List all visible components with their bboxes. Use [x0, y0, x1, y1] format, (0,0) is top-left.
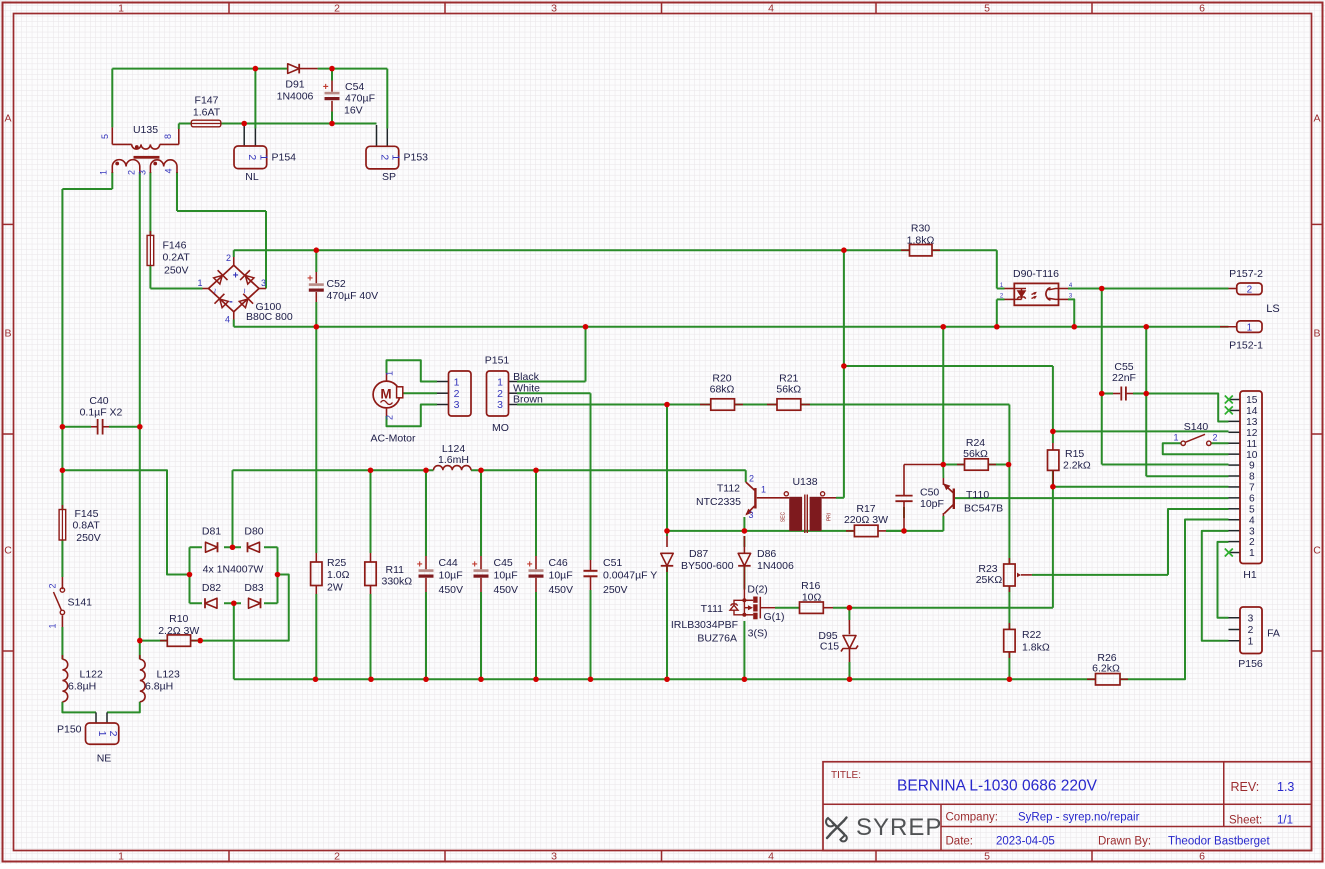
svg-text:BERNINA L-1030 0686 220V: BERNINA L-1030 0686 220V: [897, 778, 1098, 795]
svg-text:+: +: [323, 82, 329, 93]
svg-text:3: 3: [551, 851, 557, 863]
svg-text:D83: D83: [244, 582, 263, 594]
svg-text:+: +: [472, 559, 478, 570]
svg-text:REV:: REV:: [1231, 780, 1260, 794]
svg-text:F147: F147: [195, 95, 219, 107]
svg-text:C15: C15: [820, 641, 839, 653]
svg-text:250V: 250V: [164, 265, 189, 277]
svg-text:5: 5: [1249, 504, 1255, 515]
svg-text:1.8kΩ: 1.8kΩ: [907, 235, 935, 247]
svg-text:C46: C46: [549, 557, 568, 569]
svg-text:16V: 16V: [344, 105, 363, 117]
svg-text:1: 1: [1247, 322, 1253, 333]
svg-text:1: 1: [48, 623, 58, 628]
svg-text:1.0Ω: 1.0Ω: [327, 569, 350, 581]
svg-text:NE: NE: [97, 753, 112, 765]
svg-text:P153: P153: [404, 152, 429, 164]
svg-text:F145: F145: [75, 508, 99, 520]
svg-text:3: 3: [137, 170, 147, 175]
svg-text:220Ω 3W: 220Ω 3W: [844, 514, 888, 526]
svg-text:330kΩ: 330kΩ: [382, 576, 413, 588]
svg-text:S141: S141: [68, 597, 93, 609]
svg-text:U135: U135: [133, 124, 158, 136]
svg-text:G(1): G(1): [764, 611, 785, 623]
svg-text:R24: R24: [966, 437, 985, 449]
svg-text:2: 2: [454, 388, 460, 400]
svg-text:2: 2: [126, 170, 136, 175]
svg-text:5: 5: [984, 851, 990, 863]
svg-text:D(2): D(2): [747, 583, 767, 595]
svg-text:8: 8: [1249, 472, 1255, 483]
svg-text:4: 4: [768, 851, 774, 863]
svg-text:1.6mH: 1.6mH: [438, 454, 469, 466]
svg-text:R20: R20: [712, 373, 731, 385]
svg-text:2: 2: [385, 415, 395, 420]
svg-text:SYREP: SYREP: [856, 814, 942, 841]
svg-text:P157-2: P157-2: [1229, 268, 1263, 280]
svg-text:R25: R25: [327, 557, 346, 569]
svg-text:2: 2: [1212, 432, 1217, 442]
svg-text:C: C: [1313, 545, 1321, 557]
svg-text:M: M: [380, 387, 391, 402]
svg-text:470µF 40V: 470µF 40V: [327, 290, 379, 302]
svg-text:2: 2: [107, 731, 119, 737]
svg-text:A: A: [1313, 113, 1320, 125]
svg-text:3(S): 3(S): [748, 628, 768, 640]
svg-text:+: +: [417, 559, 423, 570]
svg-text:NTC2335: NTC2335: [696, 496, 741, 508]
svg-text:D80: D80: [244, 526, 263, 538]
svg-text:4: 4: [768, 3, 774, 15]
svg-text:0.2AT: 0.2AT: [163, 252, 191, 264]
svg-text:2: 2: [226, 253, 231, 263]
svg-text:P156: P156: [1238, 658, 1263, 670]
svg-text:Black: Black: [513, 371, 539, 383]
svg-text:1.6AT: 1.6AT: [193, 107, 221, 119]
svg-text:3: 3: [551, 3, 557, 15]
svg-text:-: -: [229, 296, 233, 308]
svg-text:3: 3: [748, 510, 753, 520]
svg-text:3: 3: [261, 278, 266, 288]
svg-text:P152-1: P152-1: [1229, 340, 1263, 352]
svg-text:6.8µH: 6.8µH: [145, 681, 173, 693]
svg-text:D86: D86: [757, 548, 776, 560]
svg-text:6: 6: [1249, 493, 1255, 504]
svg-text:1: 1: [99, 170, 109, 175]
svg-text:D82: D82: [202, 582, 221, 594]
svg-text:Company:: Company:: [946, 812, 998, 824]
svg-text:IRLB3034PBF: IRLB3034PBF: [671, 619, 738, 631]
svg-text:14: 14: [1246, 406, 1258, 417]
svg-text:1: 1: [258, 154, 270, 160]
svg-text:22nF: 22nF: [1112, 372, 1136, 384]
svg-text:10µF: 10µF: [549, 570, 573, 582]
svg-text:C: C: [4, 545, 12, 557]
svg-text:R11: R11: [386, 564, 405, 576]
svg-text:1: 1: [1249, 548, 1255, 559]
svg-text:250V: 250V: [76, 532, 101, 544]
svg-text:470µF: 470µF: [345, 93, 375, 105]
svg-text:7: 7: [1249, 483, 1255, 494]
svg-text:2W: 2W: [327, 582, 343, 594]
svg-text:1.8kΩ: 1.8kΩ: [1022, 642, 1050, 654]
svg-text:D90-T116: D90-T116: [1013, 268, 1059, 280]
svg-text:S140: S140: [1184, 421, 1209, 433]
svg-text:C40: C40: [89, 395, 108, 407]
svg-text:1: 1: [118, 851, 124, 863]
svg-text:2.2kΩ: 2.2kΩ: [1063, 460, 1091, 472]
svg-text:L122: L122: [80, 669, 104, 681]
svg-text:250V: 250V: [603, 584, 628, 596]
svg-text:10Ω: 10Ω: [802, 592, 822, 604]
svg-text:LS: LS: [1266, 303, 1279, 315]
svg-text:C44: C44: [439, 557, 458, 569]
svg-text:4: 4: [225, 315, 230, 325]
svg-text:FA: FA: [1267, 628, 1280, 640]
svg-text:3: 3: [497, 399, 503, 411]
svg-text:T111: T111: [701, 603, 724, 615]
svg-text:3: 3: [454, 399, 460, 411]
svg-text:SyRep - syrep.no/repair: SyRep - syrep.no/repair: [1018, 812, 1140, 824]
svg-text:1: 1: [454, 376, 460, 388]
svg-text:C51: C51: [603, 557, 622, 569]
svg-text:A: A: [4, 113, 11, 125]
svg-text:6.2kΩ: 6.2kΩ: [1092, 663, 1120, 675]
svg-text:3: 3: [1248, 613, 1254, 624]
svg-text:+: +: [307, 273, 313, 284]
svg-text:1: 1: [761, 485, 766, 495]
svg-text:2: 2: [246, 154, 258, 160]
svg-text:56kΩ: 56kΩ: [776, 384, 801, 396]
svg-text:T112: T112: [717, 483, 740, 495]
svg-text:D91: D91: [285, 79, 304, 91]
svg-text:White: White: [513, 382, 540, 394]
svg-text:450V: 450V: [439, 584, 464, 596]
svg-text:13: 13: [1246, 417, 1258, 428]
svg-text:12: 12: [1246, 428, 1258, 439]
svg-text:2023-04-05: 2023-04-05: [996, 836, 1055, 848]
svg-text:2: 2: [334, 3, 340, 15]
svg-text:1: 1: [118, 3, 124, 15]
svg-text:B: B: [4, 328, 11, 340]
svg-text:15: 15: [1246, 395, 1258, 406]
svg-text:3: 3: [1249, 526, 1255, 537]
svg-text:Brown: Brown: [513, 394, 543, 406]
svg-text:B80C 800: B80C 800: [246, 311, 293, 323]
svg-text:6: 6: [1199, 3, 1205, 15]
svg-text:4: 4: [163, 168, 173, 173]
svg-text:1: 1: [1248, 636, 1254, 647]
svg-text:NL: NL: [245, 171, 259, 183]
svg-text:10µF: 10µF: [494, 570, 518, 582]
svg-text:1: 1: [96, 731, 108, 737]
svg-text:+: +: [527, 559, 533, 570]
svg-text:R22: R22: [1022, 629, 1041, 641]
svg-text:1/1: 1/1: [1277, 815, 1293, 827]
svg-text:10µF: 10µF: [439, 570, 463, 582]
svg-text:2.2Ω 3W: 2.2Ω 3W: [158, 625, 199, 637]
svg-text:0.0047µF Y: 0.0047µF Y: [603, 570, 657, 582]
svg-text:1N4006: 1N4006: [757, 560, 794, 572]
svg-text:TITLE:: TITLE:: [831, 770, 861, 781]
svg-text:Drawn By:: Drawn By:: [1098, 836, 1151, 848]
svg-text:+: +: [233, 271, 239, 282]
svg-text:0.8AT: 0.8AT: [73, 520, 101, 532]
svg-text:~: ~: [239, 288, 249, 293]
svg-text:B: B: [1313, 328, 1320, 340]
svg-text:H1: H1: [1243, 569, 1257, 581]
svg-text:9: 9: [1249, 461, 1255, 472]
svg-text:2: 2: [48, 583, 58, 588]
svg-text:AC-Motor: AC-Motor: [371, 433, 416, 445]
svg-text:11: 11: [1247, 439, 1258, 450]
svg-text:1N4006: 1N4006: [277, 91, 314, 103]
svg-text:1: 1: [385, 371, 395, 376]
svg-text:SEC: SEC: [781, 511, 787, 522]
svg-text:5: 5: [100, 134, 110, 139]
svg-text:450V: 450V: [549, 584, 574, 596]
svg-text:10: 10: [1246, 450, 1258, 461]
svg-text:6.8µH: 6.8µH: [68, 681, 96, 693]
svg-text:56kΩ: 56kΩ: [963, 448, 988, 460]
svg-text:R10: R10: [169, 613, 188, 625]
svg-text:1: 1: [197, 278, 202, 288]
svg-text:BC547B: BC547B: [964, 503, 1003, 515]
svg-text:2: 2: [1247, 285, 1253, 296]
svg-text:6: 6: [1199, 851, 1205, 863]
svg-text:2: 2: [379, 154, 391, 160]
svg-text:C52: C52: [327, 278, 346, 290]
svg-text:2: 2: [1249, 537, 1255, 548]
svg-text:C50: C50: [920, 487, 939, 499]
svg-text:SP: SP: [382, 171, 396, 183]
svg-text:R30: R30: [911, 223, 930, 235]
svg-text:~: ~: [210, 288, 220, 293]
svg-text:MO: MO: [492, 422, 509, 434]
svg-text:C45: C45: [494, 557, 513, 569]
svg-text:D81: D81: [202, 526, 221, 538]
svg-text:Date:: Date:: [946, 836, 974, 848]
svg-text:Theodor Bastberget: Theodor Bastberget: [1168, 836, 1270, 848]
svg-text:4x 1N4007W: 4x 1N4007W: [203, 564, 264, 576]
svg-text:2: 2: [1248, 625, 1254, 636]
svg-text:P150: P150: [57, 724, 82, 736]
svg-text:2: 2: [497, 388, 503, 400]
svg-text:1: 1: [1173, 432, 1178, 442]
svg-text:BUZ76A: BUZ76A: [697, 633, 737, 645]
svg-text:R16: R16: [801, 580, 820, 592]
svg-text:68kΩ: 68kΩ: [710, 384, 735, 396]
svg-text:4: 4: [1249, 515, 1255, 526]
svg-text:C54: C54: [345, 81, 364, 93]
svg-text:2: 2: [749, 474, 754, 484]
svg-text:Sheet:: Sheet:: [1229, 815, 1262, 827]
svg-text:D87: D87: [689, 548, 708, 560]
svg-text:1.3: 1.3: [1277, 780, 1294, 794]
svg-text:BY500-600: BY500-600: [681, 560, 734, 572]
svg-text:0.1µF X2: 0.1µF X2: [80, 407, 123, 419]
svg-text:10pF: 10pF: [920, 498, 944, 510]
svg-text:8: 8: [163, 134, 173, 139]
svg-text:F146: F146: [163, 240, 187, 252]
svg-text:2: 2: [334, 851, 340, 863]
svg-text:T110: T110: [966, 489, 989, 501]
svg-text:P151: P151: [485, 355, 510, 367]
svg-text:U138: U138: [792, 476, 817, 488]
svg-text:25KΩ: 25KΩ: [976, 574, 1003, 586]
svg-text:450V: 450V: [494, 584, 519, 596]
svg-text:1: 1: [389, 154, 401, 160]
svg-text:R15: R15: [1065, 448, 1084, 460]
svg-text:5: 5: [984, 3, 990, 15]
svg-text:R21: R21: [779, 373, 798, 385]
svg-text:1: 1: [497, 376, 503, 388]
svg-text:PRI: PRI: [827, 513, 833, 521]
svg-text:L123: L123: [157, 669, 181, 681]
svg-text:P154: P154: [272, 152, 297, 164]
